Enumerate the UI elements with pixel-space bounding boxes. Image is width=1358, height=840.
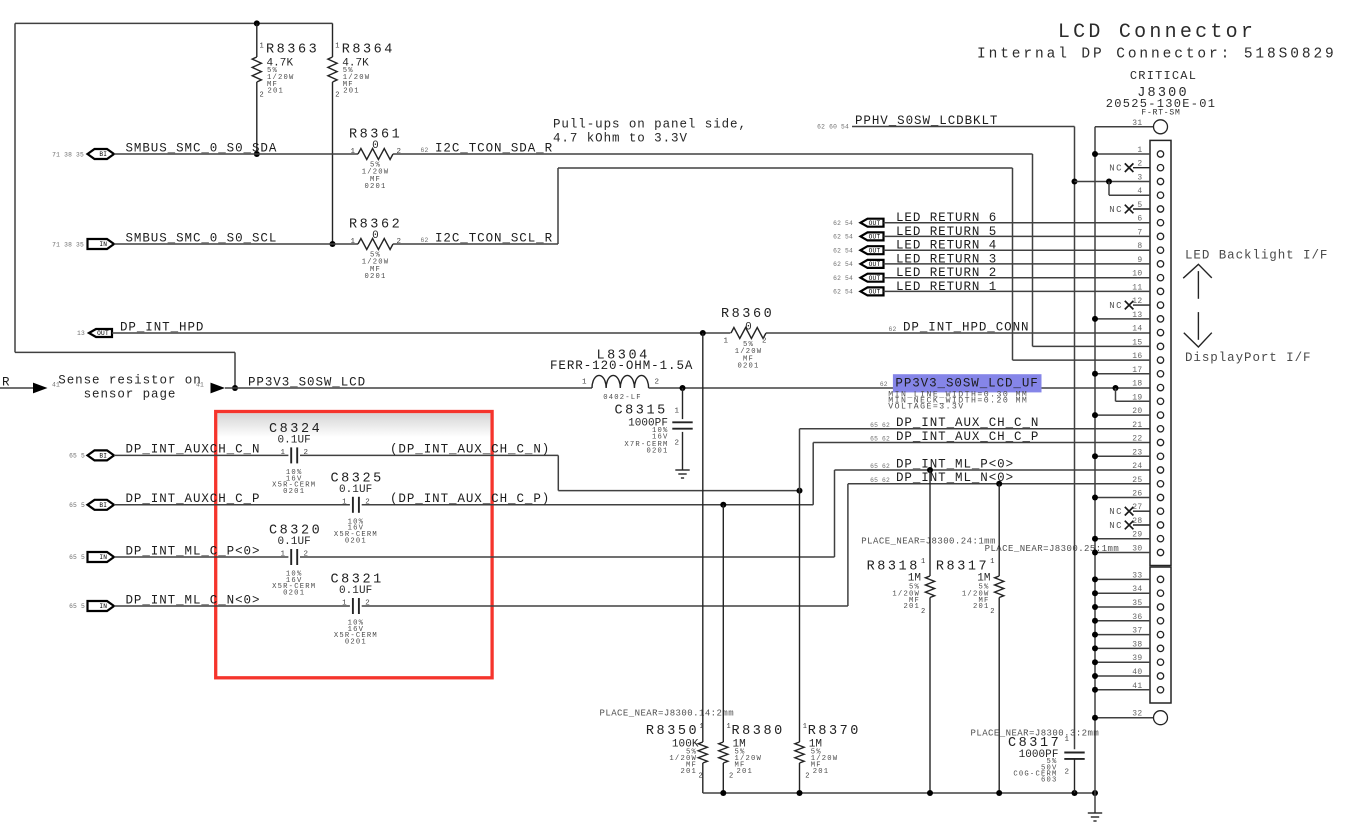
junction R8363 on SDA (254, 151, 260, 157)
svg-text:2: 2 (1137, 160, 1142, 169)
svg-text:65 62: 65 62 (870, 436, 890, 443)
resistor R8364 (328, 23, 395, 244)
svg-text:24: 24 (1132, 462, 1142, 471)
note VOLTAGE (888, 403, 964, 412)
svg-text:62: 62 (421, 237, 429, 244)
svg-text:FERR-120-OHM-1.5A: FERR-120-OHM-1.5A (550, 359, 693, 373)
resistor R8362 (349, 218, 402, 282)
svg-text:PP3V3_S0SW_LCD_UF: PP3V3_S0SW_LCD_UF (895, 377, 1038, 391)
net I2C_TCON_SCL_R (421, 231, 554, 245)
pin 9 (1137, 256, 1163, 267)
pin 16 (1013, 352, 1164, 363)
port BI SMBUS_SMC_0_S0_SDA (52, 149, 114, 159)
pin 19 (1116, 388, 1164, 404)
svg-text:OUT: OUT (869, 261, 881, 268)
svg-text:32: 32 (1132, 710, 1142, 719)
svg-text:LED Backlight I/F: LED Backlight I/F (1185, 249, 1328, 263)
junction C8317 rail (1072, 790, 1078, 796)
port IN SMBUS_SMC_0_S0_SCL (52, 239, 114, 249)
svg-text:21: 21 (1132, 421, 1142, 430)
svg-text:33: 33 (1132, 571, 1142, 580)
svg-text:2: 2 (335, 92, 339, 100)
port OUT DP_INT_HPD (77, 329, 112, 337)
port OUT LED_RETURN_3 (833, 260, 883, 268)
svg-text:0201: 0201 (283, 488, 305, 496)
net PP3V3_S0SW_LCD (248, 375, 366, 389)
svg-text:(DP_INT_AUX_CH_C_N): (DP_INT_AUX_CH_C_N) (390, 443, 550, 457)
pin 18 (1113, 380, 1164, 391)
pin 36 (1092, 613, 1164, 624)
wire DP_INT_HPD_CONN (766, 332, 1150, 334)
svg-text:OUT: OUT (869, 289, 881, 296)
wire ML_C_N left (114, 605, 350, 607)
wire gnd bus vertical (1094, 127, 1096, 813)
svg-text:35: 35 (1132, 599, 1142, 608)
net DP_INT_AUXCH_C_N (126, 443, 261, 457)
port OUT LED_RETURN_5 (833, 232, 883, 240)
svg-text:F-RT-SM: F-RT-SM (1141, 109, 1180, 118)
net LED_RETURN_1 (896, 280, 997, 294)
svg-text:36: 36 (1132, 613, 1142, 622)
net PP3V3_S0SW_LCD_UF (880, 377, 1039, 391)
pin 10 (1132, 270, 1163, 281)
resistor R8380 (719, 505, 785, 793)
port OUT LED_RETURN_4 (833, 246, 883, 254)
svg-text:2: 2 (921, 608, 925, 616)
svg-text:12: 12 (1132, 297, 1142, 306)
pin 12 (1109, 297, 1164, 311)
off-page arrow left (33, 382, 60, 394)
svg-text:NC: NC (1109, 507, 1123, 517)
junction R8318 on pin24 line (927, 467, 933, 473)
ground main (1088, 813, 1102, 821)
wire AUXCH_C_P right (362, 504, 814, 506)
wire riser AUX_CH_C_P to pin 22 (813, 443, 1150, 505)
svg-text:30: 30 (1132, 545, 1142, 554)
junction R8318 rail (927, 790, 933, 796)
connector J8300 heading CRITICAL (1130, 69, 1197, 83)
svg-text:41: 41 (1132, 682, 1142, 691)
junction gnd bus rail (1092, 790, 1098, 796)
place note PLACE_NEAR=J8300.3:2mm (971, 729, 1100, 739)
port BI DP_INT_AUXCH_C_P (69, 500, 114, 510)
svg-text:Internal DP Connector: 518S082: Internal DP Connector: 518S0829 (977, 47, 1337, 63)
off-page arrow right (196, 382, 225, 394)
note MIN_NECK_WIDTH (888, 397, 1028, 406)
svg-text:DP_INT_ML_P<0>: DP_INT_ML_P<0> (896, 457, 1014, 471)
capacitor C8317 (1008, 736, 1085, 793)
pin 20 (1092, 407, 1164, 418)
svg-text:R8364: R8364 (342, 43, 395, 58)
svg-text:25: 25 (1132, 476, 1142, 485)
svg-text:62 54: 62 54 (833, 234, 853, 241)
svg-text:DP_INT_AUX_CH_C_P: DP_INT_AUX_CH_C_P (896, 430, 1039, 444)
svg-text:65 5: 65 5 (69, 603, 85, 610)
svg-text:201: 201 (737, 768, 754, 776)
svg-text:201: 201 (680, 768, 697, 776)
svg-text:65 5: 65 5 (69, 502, 85, 509)
pin 40 (1092, 668, 1164, 679)
net DP_INT_ML_C_P<0> (126, 544, 261, 558)
svg-text:R8370: R8370 (808, 724, 861, 739)
pin 38 (1092, 640, 1164, 651)
wire left loop to PP3V3 (15, 352, 235, 388)
pin 2 (1109, 160, 1164, 174)
port IN DP_INT_ML_C_P<0> (69, 552, 114, 562)
svg-text:BI: BI (99, 151, 107, 158)
svg-text:1: 1 (990, 558, 994, 566)
capacitor C8324 (269, 422, 322, 496)
svg-text:62: 62 (880, 381, 888, 388)
net SMBUS_SMC_0_S0_SCL (126, 231, 278, 245)
svg-text:27: 27 (1132, 503, 1142, 512)
pin 4 (1109, 182, 1164, 199)
svg-text:C8315: C8315 (615, 404, 668, 419)
svg-text:2: 2 (1065, 769, 1070, 777)
svg-text:OUT: OUT (869, 275, 881, 282)
net SMBUS_SMC_0_S0_SDA (126, 141, 278, 155)
connector J8300 part number (1106, 97, 1217, 111)
ground C8315 (675, 470, 689, 478)
svg-text:OUT: OUT (97, 330, 109, 337)
svg-text:DP_INT_ML_C_N<0>: DP_INT_ML_C_N<0> (126, 593, 261, 607)
svg-text:201: 201 (903, 603, 920, 611)
pin 3 (1075, 174, 1164, 185)
svg-text:20: 20 (1132, 407, 1142, 416)
svg-text:1: 1 (335, 43, 339, 51)
svg-text:2: 2 (762, 338, 767, 346)
svg-text:DP_INT_HPD_CONN: DP_INT_HPD_CONN (903, 320, 1029, 334)
wire ML_C_P right (300, 556, 835, 558)
capacitor C8325 (331, 471, 384, 545)
svg-text:DP_INT_ML_C_P<0>: DP_INT_ML_C_P<0> (126, 544, 261, 558)
svg-text:38: 38 (1132, 640, 1142, 649)
svg-text:603: 603 (1041, 776, 1058, 784)
svg-text:0: 0 (372, 140, 379, 152)
pin 13 (1092, 311, 1164, 322)
svg-text:1: 1 (1065, 736, 1070, 744)
wire AUXCH_C_N right with jog (300, 455, 800, 490)
junction R8364 on SCL (330, 241, 336, 247)
svg-text:DP_INT_HPD: DP_INT_HPD (120, 320, 204, 334)
svg-text:62 54: 62 54 (833, 220, 853, 227)
svg-text:40: 40 (1132, 668, 1142, 677)
svg-text:65 62: 65 62 (870, 477, 890, 484)
svg-text:0201: 0201 (345, 639, 367, 647)
net LED_RETURN_6 (896, 211, 997, 225)
junction R8317 rail (996, 790, 1002, 796)
svg-text:3: 3 (1137, 174, 1142, 183)
resistor R8360 (721, 307, 774, 371)
capacitor C8320 (269, 524, 322, 598)
pin 28 (1109, 517, 1164, 531)
svg-text:IN: IN (99, 554, 107, 561)
svg-text:65 62: 65 62 (870, 422, 890, 429)
svg-text:BI: BI (99, 453, 107, 460)
svg-text:PPHV_S0SW_LCDBKLT: PPHV_S0SW_LCDBKLT (855, 114, 998, 128)
svg-text:R8380: R8380 (732, 724, 785, 739)
svg-text:39: 39 (1132, 654, 1142, 663)
port OUT LED_RETURN_6 (833, 219, 883, 227)
connector J8300 refdes (1137, 86, 1189, 101)
svg-text:0201: 0201 (283, 590, 305, 598)
wire bottom ground rail (703, 792, 1095, 794)
svg-text:18: 18 (1132, 380, 1142, 389)
svg-text:2: 2 (397, 238, 402, 246)
junction top rail / R8363 (254, 20, 260, 26)
wire DP_INT_HPD (112, 332, 731, 334)
svg-text:0: 0 (745, 322, 752, 334)
svg-text:BI: BI (99, 502, 107, 509)
svg-text:Sense resistor on: Sense resistor on (58, 374, 201, 388)
svg-text:28: 28 (1132, 517, 1142, 526)
pin 39 (1092, 654, 1164, 665)
svg-text:1: 1 (1137, 146, 1142, 155)
wire PP3V3_S0SW_LCD (225, 387, 592, 389)
svg-text:1: 1 (727, 723, 731, 731)
net PPHV_S0SW_LCDBKLT (817, 114, 998, 131)
svg-text:1: 1 (351, 148, 356, 156)
svg-text:65 5: 65 5 (69, 453, 85, 460)
pin 41 (1092, 682, 1164, 693)
wire SCL right / I2C_TCON_SCL_R (393, 168, 1013, 360)
svg-text:15: 15 (1132, 338, 1142, 347)
svg-text:26: 26 (1132, 490, 1142, 499)
svg-text:I2C_TCON_SCL_R: I2C_TCON_SCL_R (435, 231, 553, 245)
svg-text:23: 23 (1132, 448, 1142, 457)
junction R8380 rail (720, 790, 726, 796)
junction R8370 rail (797, 790, 803, 796)
svg-text:62 54: 62 54 (833, 289, 853, 296)
pin 14 (1132, 325, 1163, 336)
svg-text:65 62: 65 62 (870, 463, 890, 470)
wire ML_C_P left (114, 556, 288, 558)
pin 7 (1137, 228, 1163, 239)
wire AUXCH_C_N left (114, 454, 288, 456)
svg-text:14: 14 (1132, 325, 1142, 334)
place note PLACE_NEAR=J8300.14:2mm (600, 709, 735, 719)
pin 32 (1092, 710, 1168, 725)
svg-text:2: 2 (397, 148, 402, 156)
pin 33 (1092, 571, 1164, 582)
svg-text:DP_INT_AUXCH_C_N: DP_INT_AUXCH_C_N (126, 443, 261, 457)
connector body upper (1150, 140, 1171, 565)
net DP_INT_ML_N<0> (pin 25) (870, 471, 1014, 485)
pin 30 (1092, 545, 1164, 556)
svg-text:62 60 54: 62 60 54 (817, 124, 849, 131)
arrow up (1183, 264, 1212, 299)
svg-text:4.7 kOhm to 3.3V: 4.7 kOhm to 3.3V (553, 132, 688, 146)
svg-text:0.1UF: 0.1UF (339, 585, 372, 597)
svg-text:OUT: OUT (869, 220, 881, 227)
svg-text:34: 34 (1132, 585, 1142, 594)
svg-text:IN: IN (99, 241, 107, 248)
svg-text:0.1UF: 0.1UF (278, 536, 311, 548)
svg-text:sensor page: sensor page (84, 388, 177, 402)
svg-text:NC: NC (1109, 164, 1123, 174)
resistor R8361 (349, 128, 402, 192)
svg-text:1: 1 (803, 723, 807, 731)
resistor R8363 (252, 23, 319, 154)
wire PP3V3 to connector pin 18 (649, 387, 1150, 389)
pin 11 (1132, 283, 1163, 294)
net DP_INT_HPD_CONN (889, 320, 1030, 334)
svg-text:1: 1 (675, 408, 680, 416)
svg-text:SMBUS_SMC_0_S0_SDA: SMBUS_SMC_0_S0_SDA (126, 141, 278, 155)
svg-text:29: 29 (1132, 531, 1142, 540)
svg-text:41: 41 (196, 382, 204, 389)
resistor R8350 (646, 333, 708, 793)
red highlight box (216, 412, 492, 678)
svg-text:1: 1 (280, 449, 285, 457)
svg-text:1: 1 (724, 338, 729, 346)
svg-text:R8363: R8363 (266, 43, 319, 58)
svg-text:71 38 35: 71 38 35 (52, 241, 84, 248)
svg-text:0201: 0201 (345, 537, 367, 545)
svg-text:LCD Connector: LCD Connector (1058, 21, 1256, 44)
svg-text:0201: 0201 (646, 447, 668, 455)
svg-text:NC: NC (1109, 205, 1123, 215)
net DP_INT_AUX_CH_C_P (pin 22) (870, 430, 1039, 444)
label LED Backlight I/F (1185, 249, 1328, 263)
svg-text:I2C_TCON_SDA_R: I2C_TCON_SDA_R (435, 141, 553, 155)
svg-text:DP_INT_AUX_CH_C_N: DP_INT_AUX_CH_C_N (896, 416, 1039, 430)
wire top pull-up rail (15, 23, 333, 352)
svg-text:NC: NC (1109, 301, 1123, 311)
wire AUXCH_C_P left (114, 504, 350, 506)
junction PPHV pin 3 (1072, 179, 1078, 185)
pin 29 (1092, 531, 1164, 542)
svg-text:PLACE_NEAR=J8300.24:1mm: PLACE_NEAR=J8300.24:1mm (861, 537, 996, 547)
arrow down (1184, 312, 1212, 347)
capacitor C8315 (615, 388, 693, 470)
svg-text:2: 2 (699, 773, 703, 781)
svg-text:1: 1 (280, 551, 285, 559)
svg-text:2: 2 (260, 92, 264, 100)
net DP_INT_AUX_CH_C_N (pin 21) (870, 416, 1039, 430)
svg-text:19: 19 (1132, 393, 1142, 402)
connector J8300 package F-RT-SM (1141, 109, 1180, 118)
svg-text:1: 1 (260, 43, 264, 51)
junction R8317 on pin25 line (996, 481, 1002, 487)
svg-text:22: 22 (1132, 435, 1142, 444)
svg-text:4: 4 (1137, 187, 1142, 196)
net I2C_TCON_SDA_R (421, 141, 554, 155)
svg-text:2: 2 (675, 439, 680, 447)
net (DP_INT_AUX_CH_C_N) (390, 443, 550, 457)
wire LED_RETURN_4 to pin 8 (884, 249, 1151, 251)
wire PPHV_S0SW_LCDBKLT (852, 127, 1075, 750)
svg-text:16: 16 (1132, 352, 1142, 361)
svg-text:IN: IN (99, 603, 107, 610)
place note PLACE_NEAR=J8300.24:1mm (861, 537, 996, 547)
resistor R8317 (936, 484, 1004, 793)
pin 15 (1033, 338, 1164, 349)
svg-text:1: 1 (342, 600, 347, 608)
svg-text:201: 201 (268, 88, 285, 96)
label DisplayPort I/F (1185, 351, 1311, 365)
capacitor C8321 (331, 573, 384, 647)
svg-text:OUT: OUT (869, 247, 881, 254)
svg-text:DisplayPort I/F: DisplayPort I/F (1185, 351, 1311, 365)
note pull-ups (553, 118, 747, 146)
net DP_INT_AUXCH_C_P (126, 492, 261, 506)
svg-text:NC: NC (1109, 521, 1123, 531)
wire SDA right / I2C_TCON_SDA_R (393, 154, 1033, 346)
junction R8370 / C_N riser (797, 488, 803, 494)
wire LED_RETURN_1 to pin 11 (884, 290, 1151, 292)
svg-text:0201: 0201 (364, 273, 386, 281)
svg-text:2: 2 (990, 608, 994, 616)
svg-text:65 5: 65 5 (69, 554, 85, 561)
svg-text:1: 1 (351, 238, 356, 246)
title LCD Connector (1058, 21, 1256, 44)
pin 6 (1137, 215, 1163, 226)
net LED_RETURN_2 (896, 266, 997, 280)
port OUT LED_RETURN_2 (833, 274, 883, 282)
resistor R8318 (867, 470, 935, 793)
place note PLACE_NEAR=J8300.25:1mm (985, 544, 1120, 554)
svg-text:37: 37 (1132, 627, 1142, 636)
pin 22 (1132, 435, 1163, 446)
pin 8 (1137, 242, 1163, 253)
wire LED_RETURN_3 to pin 9 (884, 263, 1151, 265)
pin 23 (1092, 448, 1164, 459)
svg-text:0.1UF: 0.1UF (278, 435, 311, 447)
pin 24 (1132, 462, 1163, 473)
wire LED_RETURN_2 to pin 10 (884, 277, 1151, 279)
svg-text:31: 31 (1132, 119, 1142, 128)
pin 25 (1132, 476, 1163, 487)
wire riser AUX_CH_C_N to pin 21 (800, 429, 1151, 491)
svg-text:17: 17 (1132, 366, 1142, 375)
svg-text:62: 62 (889, 326, 897, 333)
svg-text:0201: 0201 (364, 183, 386, 191)
resistor R8370 (795, 491, 861, 793)
svg-text:1: 1 (582, 379, 587, 387)
pin 31 (1095, 119, 1168, 134)
port OUT LED_RETURN_1 (833, 287, 883, 295)
subtitle Internal DP Connector: 518S0829 (977, 47, 1337, 63)
svg-text:62 54: 62 54 (833, 261, 853, 268)
svg-text:2: 2 (805, 773, 809, 781)
junction C8315 branch (680, 385, 686, 391)
junction loop on PP3V3 node (232, 385, 238, 391)
wire LED_RETURN_6 to pin 6 (884, 222, 1151, 224)
svg-text:5: 5 (1137, 201, 1142, 210)
net DP_INT_HPD (120, 320, 204, 334)
svg-text:0.1UF: 0.1UF (339, 484, 372, 496)
wire riser ML_P to pin 24 (835, 470, 1151, 557)
svg-text:201: 201 (343, 88, 360, 96)
pin 17 (1092, 366, 1164, 377)
svg-text:OUT: OUT (869, 234, 881, 241)
svg-text:2: 2 (729, 773, 733, 781)
net LED_RETURN_3 (896, 252, 997, 266)
pin 21 (1132, 421, 1163, 432)
note sense resistor (58, 374, 201, 402)
wire riser ML_N to pin 25 (848, 484, 1150, 606)
svg-text:(DP_INT_AUX_CH_C_P): (DP_INT_AUX_CH_C_P) (390, 492, 550, 506)
port BI DP_INT_AUXCH_C_N (69, 450, 114, 460)
pin 27 (1109, 503, 1164, 517)
svg-text:1: 1 (700, 723, 704, 731)
net LED_RETURN_4 (896, 239, 997, 253)
svg-text:PLACE_NEAR=J8300.14:2mm: PLACE_NEAR=J8300.14:2mm (600, 709, 735, 719)
svg-text:R8360: R8360 (721, 307, 774, 322)
wire ML_C_N right (362, 605, 848, 607)
svg-text:R8350: R8350 (646, 724, 699, 739)
